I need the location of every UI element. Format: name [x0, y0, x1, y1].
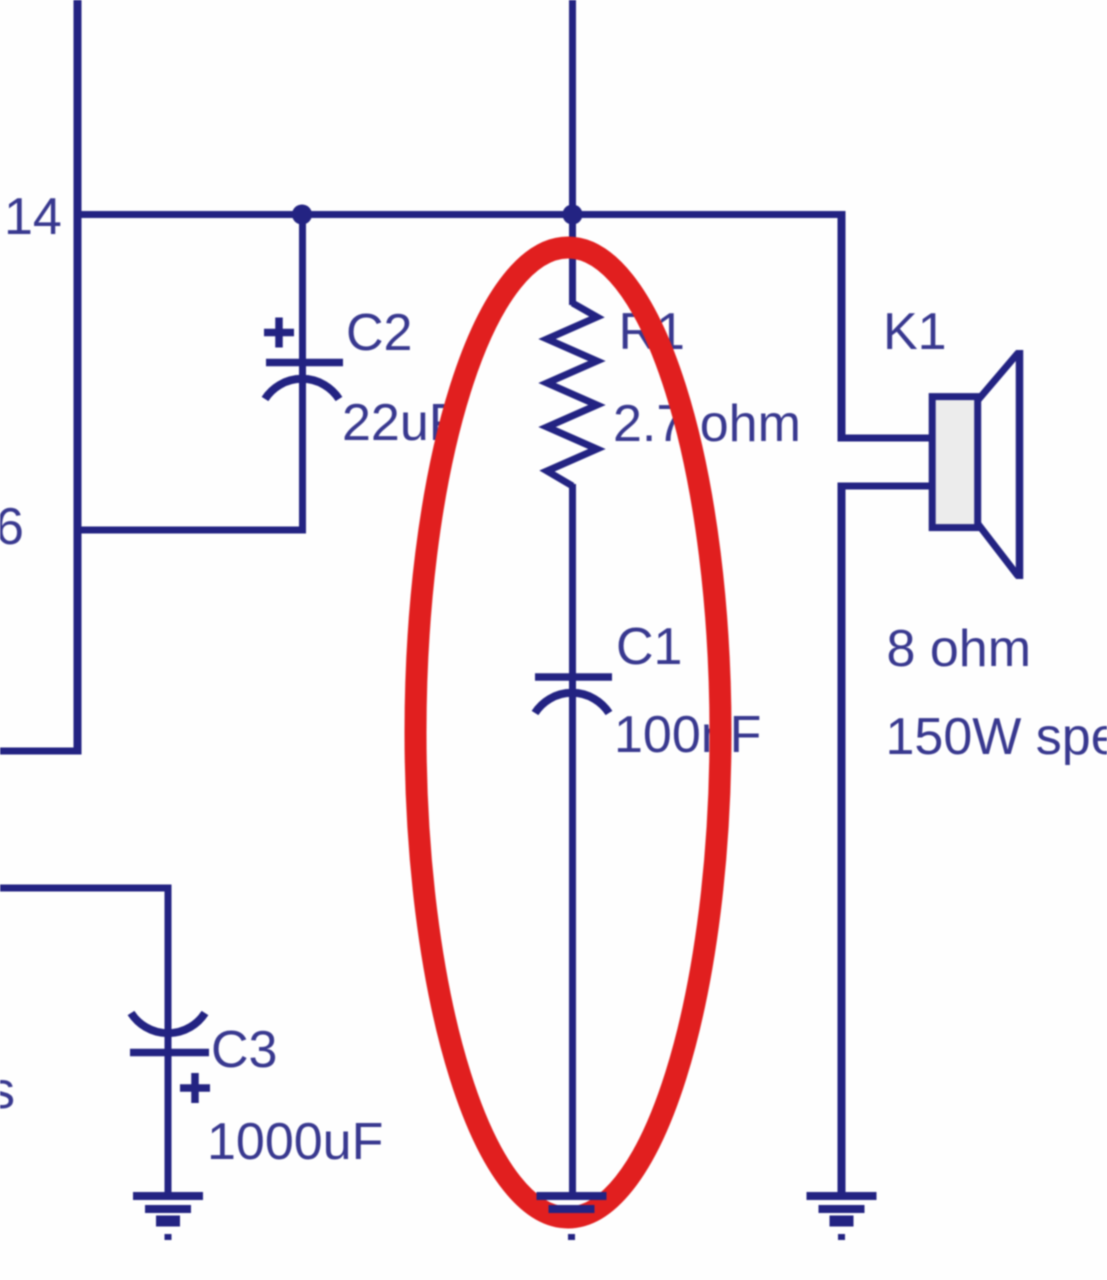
capacitor C1 curved plate: [535, 693, 609, 713]
capacitor C2 curved plate: [265, 379, 339, 399]
node: junction at R1 branch: [563, 205, 583, 225]
capacitor C3 flat plate: [130, 1049, 209, 1057]
highlight ellipse around R1-C1: [416, 248, 721, 1218]
speaker K1 cone mouth vertical: [1016, 350, 1024, 579]
wire: right branch vertical upper: [838, 211, 846, 442]
wire: R1 top lead: [569, 214, 576, 305]
wire: pin 6 horizontal: [74, 527, 306, 534]
capacitor C3 curved plate: [131, 1013, 205, 1033]
capacitor C1 flat plate: [535, 673, 612, 681]
capacitor C3 polarity plus: [180, 1073, 210, 1103]
wire: C3 branch vertical: [165, 885, 172, 1192]
svg-text:s: s: [0, 1062, 15, 1120]
capacitor C2 polarity plus: [264, 318, 294, 348]
svg-text:K1: K1: [883, 303, 947, 361]
ground: below C1 (lower bars, under highlight): [560, 1221, 584, 1237]
svg-text:14: 14: [4, 188, 62, 246]
wire: speaker lower terminal stub: [838, 483, 932, 490]
ground: below C3: [133, 1196, 203, 1237]
wire: bottom-left horizontal from left edge: [0, 885, 172, 892]
resistor R1: [547, 303, 597, 486]
svg-text:2.7 ohm: 2.7 ohm: [613, 395, 801, 453]
svg-text:100nF: 100nF: [614, 706, 761, 764]
svg-text:150W speaker: 150W speaker: [886, 708, 1107, 766]
svg-text:8 ohm: 8 ohm: [887, 620, 1032, 678]
wire: IC right-edge vertical from top: [74, 0, 82, 755]
wire: top center vertical drop: [569, 0, 576, 218]
wire: R1 to C1 lead: [569, 484, 576, 1192]
svg-text:1000uF: 1000uF: [207, 1113, 383, 1171]
speaker K1 cone bottom diagonal: [978, 524, 1018, 576]
speaker K1 cone top diagonal: [978, 353, 1018, 400]
svg-text:C1: C1: [616, 618, 682, 676]
svg-text:6: 6: [0, 498, 24, 556]
ground: below C1 (upper bars over highlight): [537, 1196, 607, 1209]
wire: main horizontal net from pin 14: [74, 211, 845, 218]
capacitor C2 flat plate: [266, 359, 343, 367]
wire: right branch vertical lower: [838, 483, 846, 1193]
svg-text:C3: C3: [211, 1021, 277, 1079]
svg-text:C2: C2: [346, 304, 412, 362]
wire: IC bottom corner horizontal to left edge: [0, 748, 81, 755]
node: junction at C2 branch: [292, 205, 312, 225]
ground: below speaker: [807, 1196, 877, 1237]
speaker K1 body: [932, 397, 978, 528]
wire: C2 branch vertical: [299, 211, 306, 530]
wire: speaker upper terminal stub: [838, 435, 932, 442]
